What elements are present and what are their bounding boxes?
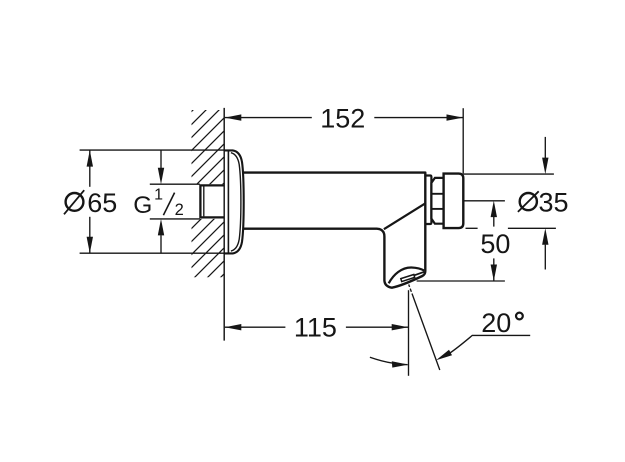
wall flange (escutcheon)	[224, 150, 243, 253]
wall line	[223, 108, 225, 341]
extension lines Ø65	[80, 150, 225, 253]
spout transition edge	[384, 203, 425, 229]
aerator screen	[401, 275, 415, 282]
svg-text:115: 115	[294, 313, 337, 343]
push knob	[444, 174, 464, 229]
svg-text:2: 2	[175, 201, 184, 219]
aerator dome curve	[389, 267, 425, 283]
angle dimension 20 degrees	[370, 285, 530, 371]
svg-text:35: 35	[538, 187, 568, 217]
20 degree jet line	[409, 285, 440, 371]
svg-text:50: 50	[480, 229, 510, 259]
svg-text:20: 20	[481, 308, 511, 338]
ring collar	[425, 176, 431, 225]
svg-text:65: 65	[87, 188, 117, 218]
dimension 50	[417, 216, 505, 281]
flange inner arc	[231, 153, 241, 251]
svg-text:1: 1	[154, 186, 163, 203]
flange back seam	[227, 150, 229, 253]
wall hatching	[0, 95, 403, 430]
G 1/2 threaded inlet pipe	[200, 185, 224, 217]
angle arc	[370, 357, 408, 364]
dimension 115	[225, 290, 409, 376]
centerline of knob	[463, 200, 505, 202]
aerator rim line	[414, 272, 424, 276]
svg-text:G: G	[133, 192, 152, 219]
leader curve	[450, 335, 530, 353]
dimension Ø65	[89, 150, 91, 253]
label G 1/2	[133, 186, 184, 219]
tap body	[241, 173, 426, 288]
dimension Ø35	[463, 137, 556, 270]
dimension 152	[225, 108, 463, 173]
hex nut	[431, 178, 443, 224]
dimension G 1/2	[150, 150, 200, 253]
svg-text:152: 152	[320, 103, 365, 133]
